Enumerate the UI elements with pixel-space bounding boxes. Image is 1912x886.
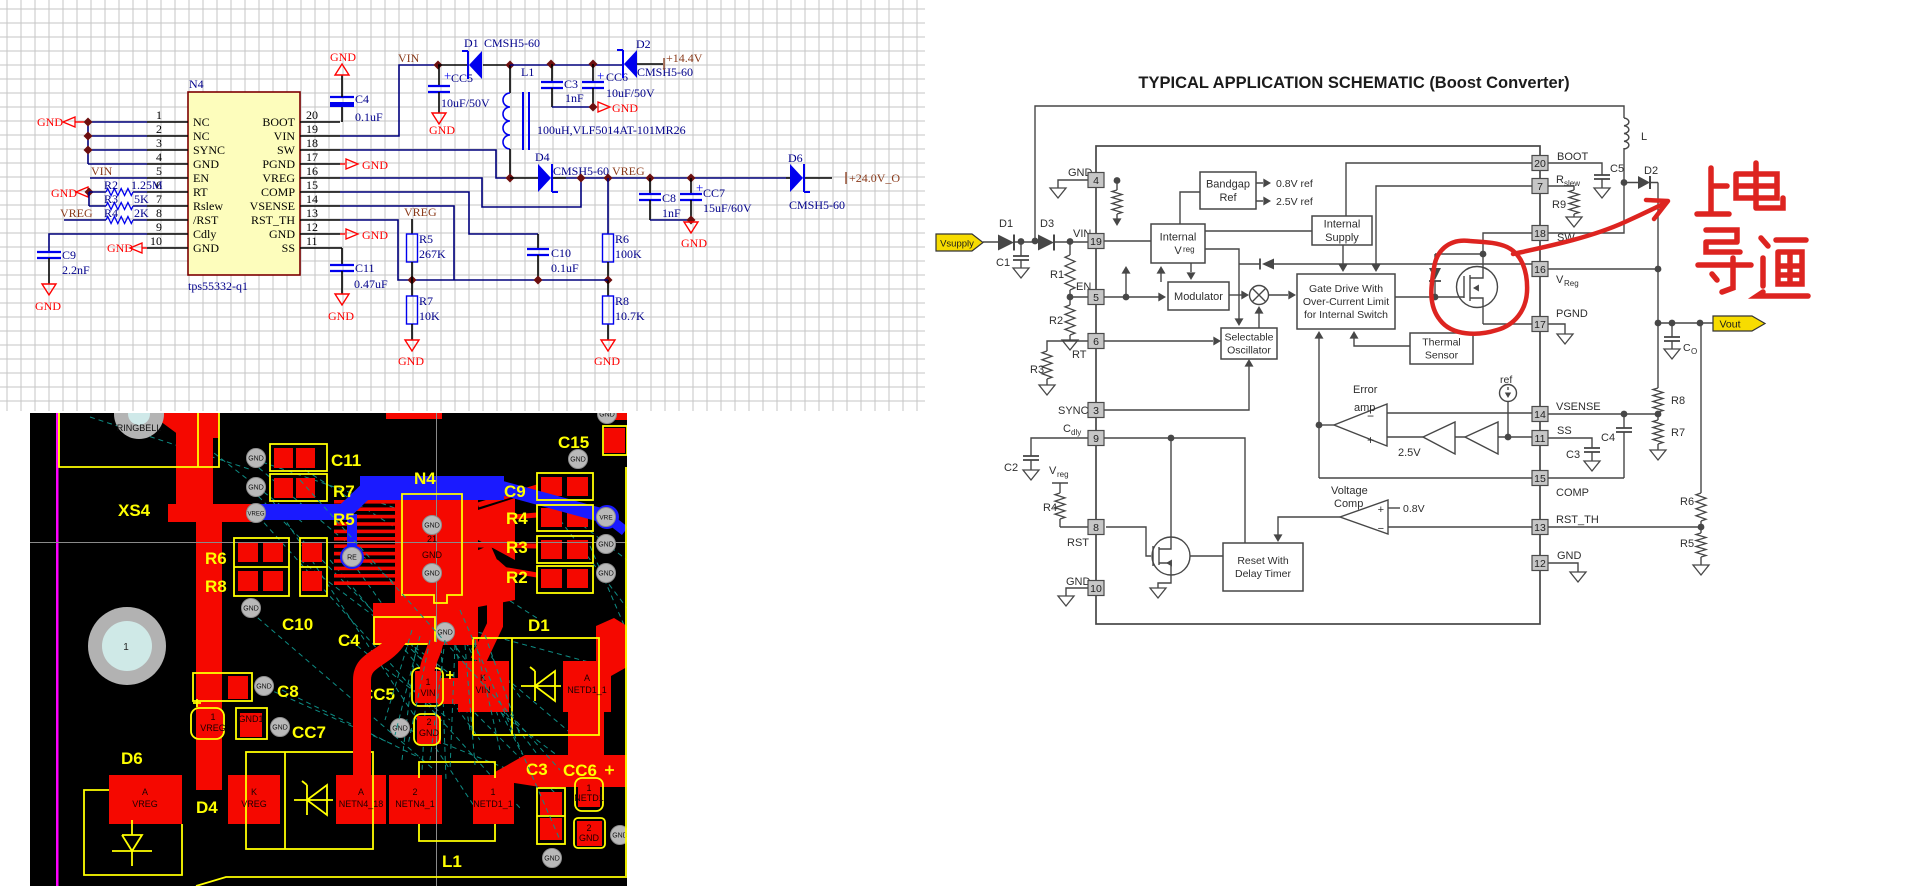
Reset With Delay Timer box	[1223, 543, 1303, 591]
pin 10 GND wire	[1066, 588, 1091, 596]
svg-text:19: 19	[1090, 236, 1102, 248]
pads CC5	[415, 671, 441, 744]
svg-text:R: R	[1556, 174, 1564, 186]
svg-text:C2: C2	[1004, 462, 1018, 474]
right pin numbers 20-11	[306, 108, 318, 248]
svg-text:18: 18	[1534, 228, 1546, 240]
wire VREG rail	[566, 177, 786, 179]
multiplier circle	[1250, 286, 1269, 305]
svg-text:1nF: 1nF	[662, 206, 681, 220]
svg-text:R1: R1	[1050, 269, 1064, 281]
svg-text:R4: R4	[1043, 502, 1057, 514]
ratsnest airwires	[90, 417, 627, 818]
Bandgap Ref box	[1200, 172, 1256, 209]
svg-text:GND: GND	[193, 241, 219, 255]
svg-text:COMP: COMP	[261, 185, 295, 199]
svg-text:2: 2	[426, 717, 431, 727]
svg-text:GND: GND	[398, 354, 424, 368]
svg-text:R7: R7	[1671, 427, 1685, 439]
junction CC6 top	[589, 60, 598, 69]
svg-text:GND: GND	[392, 726, 408, 733]
svg-text:A: A	[358, 787, 364, 797]
diode D3	[1038, 218, 1054, 251]
Vout tag	[1713, 316, 1765, 331]
svg-text:VIN: VIN	[274, 129, 296, 143]
svg-text:+24.0V_O: +24.0V_O	[849, 171, 900, 185]
svg-text:/RST: /RST	[193, 213, 219, 227]
svg-text:R3: R3	[104, 192, 118, 206]
junction R6/R8	[604, 276, 613, 285]
wire RST_TH pin 13 riser	[340, 220, 412, 280]
COMP internal wire	[1319, 477, 1533, 479]
svg-text:267K: 267K	[419, 247, 446, 261]
ground symbol above C4	[330, 50, 356, 75]
svg-text:12: 12	[1534, 558, 1546, 570]
title	[1138, 74, 1569, 92]
svg-text:R6: R6	[1680, 496, 1694, 508]
svg-text:R7: R7	[333, 482, 355, 501]
svg-text:dly: dly	[1071, 428, 1081, 437]
svg-text:VREG: VREG	[262, 171, 295, 185]
net label +14.4V	[664, 51, 703, 70]
ground symbol under R7	[398, 340, 424, 368]
svg-text:14: 14	[1534, 409, 1546, 421]
error amp output to gate drive	[1318, 335, 1320, 478]
svg-text:RST_TH: RST_TH	[1556, 514, 1599, 526]
svg-text:C: C	[1683, 342, 1691, 354]
svg-text:2.5V: 2.5V	[1398, 447, 1421, 459]
svg-text:R5: R5	[1680, 538, 1694, 550]
svg-text:GND: GND	[362, 158, 388, 172]
svg-text:NETD1_1: NETD1_1	[473, 799, 513, 809]
gate drive node wire	[1435, 253, 1483, 255]
internal pulldown resistor pin4	[1116, 180, 1118, 190]
svg-text:GND: GND	[579, 833, 600, 843]
svg-text:1: 1	[490, 787, 495, 797]
svg-text:VREG: VREG	[200, 723, 226, 733]
svg-text:19: 19	[306, 122, 318, 136]
svg-text:15uF/60V: 15uF/60V	[703, 201, 752, 215]
capacitor CC5 10uF/50V	[428, 65, 490, 113]
junction dot R2 left	[85, 188, 94, 197]
svg-text:BOOT: BOOT	[262, 115, 295, 129]
svg-text:+: +	[597, 68, 604, 83]
svg-text:17: 17	[1534, 319, 1546, 331]
svg-text:1: 1	[123, 642, 129, 653]
inductor L	[1624, 118, 1629, 149]
svg-text:Gate Drive With: Gate Drive With	[1309, 283, 1383, 295]
Vsupply tag	[936, 234, 983, 251]
svg-text:3: 3	[156, 136, 162, 150]
svg-text:RINGBELL: RINGBELL	[117, 423, 162, 433]
svg-text:GND: GND	[35, 299, 61, 313]
svg-text:GND: GND	[328, 309, 354, 323]
silk top-left connector XS4	[59, 413, 219, 467]
svg-text:GND1: GND1	[238, 714, 263, 724]
inductor L1 100uH	[503, 65, 686, 178]
resistor R8 10.7K	[607, 280, 609, 340]
gate wire from gate drive	[1395, 296, 1464, 298]
N4 pin traces right	[478, 487, 537, 575]
svg-text:Oscillator: Oscillator	[1227, 345, 1271, 357]
svg-text:R2: R2	[506, 568, 528, 587]
silkscreen designator texts	[118, 433, 597, 871]
svg-text:1: 1	[425, 677, 430, 687]
svg-text:C4: C4	[1601, 432, 1615, 444]
wire VREG to R6	[607, 178, 609, 234]
value label tps55332-q1	[188, 279, 248, 293]
svg-text:GND: GND	[424, 523, 440, 530]
svg-text:C4: C4	[338, 631, 360, 650]
wire SW pin 18 to D4 anode	[340, 150, 510, 178]
svg-text:2.2nF: 2.2nF	[62, 263, 90, 277]
pin 4 GND wire	[1058, 180, 1089, 188]
svg-text:+: +	[1367, 433, 1374, 447]
svg-text:RST: RST	[1067, 537, 1089, 549]
svg-text:Cdly: Cdly	[193, 227, 216, 241]
pin 15 COMP wire external	[1548, 477, 1624, 479]
svg-text:Delay Timer: Delay Timer	[1235, 568, 1292, 580]
svg-text:Bandgap: Bandgap	[1206, 179, 1250, 191]
wire D2 cathode to Vout	[1657, 183, 1659, 324]
silk C9 R4 R3 R2 boxes	[537, 473, 593, 593]
pin 20 BOOT + C5	[1548, 163, 1602, 188]
svg-text:CMSH5-60: CMSH5-60	[789, 198, 845, 212]
ground symbol under C11	[328, 294, 354, 323]
svg-text:GND: GND	[37, 115, 63, 129]
svg-text:0.8V: 0.8V	[1403, 503, 1425, 515]
svg-text:2: 2	[586, 823, 591, 833]
silk board outline bottom	[196, 467, 627, 886]
PCB origin crosshair	[30, 413, 627, 886]
svg-text:10.7K: 10.7K	[615, 309, 645, 323]
svg-text:VREG: VREG	[132, 799, 158, 809]
Internal Supply box	[1312, 216, 1372, 245]
svg-text:GND: GND	[362, 228, 388, 242]
svg-text:GND: GND	[422, 550, 443, 560]
svg-text:Selectable: Selectable	[1224, 332, 1273, 344]
svg-text:EN: EN	[193, 171, 209, 185]
pin 12 GND ground	[1548, 563, 1578, 572]
capacitor Co	[1671, 323, 1673, 349]
svg-text:RT: RT	[1072, 349, 1087, 361]
svg-text:C15: C15	[558, 433, 589, 452]
ground power port pin 17 PGND	[340, 158, 388, 172]
svg-text:R4: R4	[506, 509, 528, 528]
svg-text:GND: GND	[248, 456, 264, 463]
svg-text:C10: C10	[551, 246, 571, 260]
resistor R5 267K	[407, 219, 447, 280]
svg-text:C10: C10	[282, 615, 313, 634]
svg-text:+14.4V: +14.4V	[666, 51, 703, 65]
svg-text:NC: NC	[193, 115, 210, 129]
svg-text:13: 13	[306, 206, 318, 220]
svg-text:NETN4_18: NETN4_18	[339, 799, 384, 809]
resistor R2 1.25M	[104, 178, 163, 196]
ground power port GND pin 10	[107, 241, 147, 255]
oscillator to multiplier	[1258, 312, 1260, 328]
SW internal wire	[1483, 233, 1533, 254]
silk D6 outline and diode symbol	[84, 790, 182, 875]
svg-text:0.1uF: 0.1uF	[355, 110, 383, 124]
svg-text:XS4: XS4	[118, 501, 151, 520]
label VIN	[1073, 228, 1091, 240]
via VREG	[247, 504, 266, 523]
multiplier to gate drive	[1269, 294, 1288, 296]
svg-text:GND: GND	[51, 186, 77, 200]
junction VIN/L1	[506, 61, 515, 70]
svg-text:reg: reg	[1183, 245, 1195, 254]
mounting hole 1	[88, 607, 166, 685]
svg-text:VIN: VIN	[91, 164, 113, 178]
IC N4 right pin stubs 20-11	[300, 122, 340, 248]
svg-text:R6: R6	[205, 549, 227, 568]
capacitor CC6 10uF/50V	[582, 64, 655, 107]
svg-text:R9: R9	[1552, 199, 1566, 211]
svg-text:13: 13	[1534, 522, 1546, 534]
designator N4	[189, 77, 204, 91]
svg-text:CC5: CC5	[451, 71, 473, 85]
wire transistor to reset box	[1190, 555, 1223, 557]
svg-text:GND: GND	[424, 571, 440, 578]
svg-text:D4: D4	[535, 150, 550, 164]
via VRE on blue trace	[597, 508, 616, 527]
wire Internal Supply to BOOT	[1346, 163, 1533, 216]
svg-text:R3: R3	[506, 538, 528, 557]
junction dots bus	[84, 118, 93, 155]
svg-text:0.8V ref: 0.8V ref	[1276, 178, 1313, 190]
wire Vreg down to modulator	[1190, 263, 1192, 272]
net label VIN (pin 5)	[91, 164, 113, 178]
svg-text:C4: C4	[355, 92, 369, 106]
svg-text:R5: R5	[333, 510, 355, 529]
svg-text:VSENSE: VSENSE	[1556, 401, 1601, 413]
svg-text:Comp: Comp	[1334, 498, 1363, 510]
capacitor C9 2.2nF	[37, 248, 90, 284]
svg-text:NC: NC	[193, 129, 210, 143]
svg-text:amp: amp	[1354, 402, 1375, 414]
IC N4 left pin stubs 1-10	[147, 122, 188, 248]
wire VIN to C3/CC6/D2	[510, 64, 622, 66]
svg-text:N4: N4	[189, 77, 204, 91]
svg-text:Internal: Internal	[1324, 219, 1361, 231]
net label +24.0V_O	[846, 171, 900, 185]
diode D4 CMSH5-60	[510, 177, 566, 179]
svg-text:GND: GND	[269, 227, 295, 241]
pin boxes left side	[1088, 173, 1104, 596]
pads R6 R8	[238, 542, 322, 591]
svg-text:PGND: PGND	[262, 157, 295, 171]
svg-text:R8: R8	[615, 294, 629, 308]
junction VIN/CC5	[434, 61, 443, 70]
svg-text:Voltage: Voltage	[1331, 485, 1368, 497]
copper pour N4	[373, 498, 515, 645]
Internal Supply arrows into gate drive	[1343, 245, 1376, 265]
IC N4 left pin names	[193, 115, 225, 255]
svg-text:100K: 100K	[615, 247, 642, 261]
svg-text:SS: SS	[282, 241, 295, 255]
svg-text:tps55332-q1: tps55332-q1	[188, 279, 248, 293]
svg-text:SS: SS	[1557, 425, 1572, 437]
svg-text:C11: C11	[355, 261, 375, 275]
svg-text:O: O	[1691, 347, 1697, 356]
wire drain up to Cdly line	[1170, 438, 1172, 537]
junction L/D2/SW	[1621, 179, 1628, 186]
resistor R6 100K	[603, 232, 643, 262]
svg-text:N4: N4	[414, 469, 436, 488]
Vreg bias + R4	[1049, 465, 1069, 479]
pin 13 RST_TH wire external	[1548, 526, 1701, 528]
Rslew internal wire	[1376, 186, 1533, 245]
svg-text:SW: SW	[277, 143, 296, 157]
comparator output to reset timer	[1278, 517, 1340, 535]
IC N4 right pin names	[250, 115, 296, 255]
capacitor CC7 15uF/60V	[680, 178, 752, 220]
svg-text:+: +	[1378, 504, 1384, 516]
copper pour top left	[160, 413, 627, 438]
wire VIN pin 19 riser	[340, 65, 438, 136]
svg-text:2: 2	[412, 787, 417, 797]
svg-text:C8: C8	[662, 191, 676, 205]
svg-text:V: V	[1556, 274, 1564, 286]
svg-text:RE: RE	[347, 555, 357, 562]
pad net name texts	[132, 534, 607, 843]
svg-text:COMP: COMP	[1556, 487, 1589, 499]
svg-text:GND: GND	[419, 728, 440, 738]
schematic grid background	[0, 0, 925, 411]
resistor R7	[1650, 414, 1685, 460]
svg-text:L1: L1	[521, 65, 534, 79]
pin 14 VSENSE wire	[1548, 413, 1658, 415]
svg-text:K: K	[251, 787, 257, 797]
svg-text:20: 20	[1534, 158, 1546, 170]
svg-text:GND: GND	[681, 236, 707, 250]
buffer triangle 2	[1465, 422, 1498, 454]
svg-text:10uF/50V: 10uF/50V	[441, 96, 490, 110]
wire VREG to R4	[64, 219, 147, 221]
svg-text:NETD1: NETD1	[574, 793, 604, 803]
svg-text:VRE: VRE	[599, 515, 613, 522]
svg-text:GND: GND	[598, 571, 614, 578]
blue top-layer trace R5 net	[258, 488, 608, 556]
svg-text:Modulator: Modulator	[1174, 291, 1223, 303]
pads C9 R4 R3 R2	[541, 477, 588, 588]
svg-text:GND: GND	[612, 101, 638, 115]
wire VREG pin 16 loop under D4	[340, 178, 581, 207]
svg-text:9: 9	[1093, 433, 1099, 445]
svg-text:GND: GND	[599, 412, 615, 419]
svg-text:1: 1	[586, 783, 591, 793]
svg-text:RT: RT	[193, 185, 208, 199]
svg-text:CMSH5-60: CMSH5-60	[637, 65, 693, 79]
silk CC5 boxes	[412, 668, 454, 745]
buffer chain to SS	[1387, 436, 1533, 438]
svg-text:17: 17	[306, 150, 318, 164]
svg-text:6: 6	[1093, 336, 1099, 348]
junction VREG rail dots	[577, 174, 696, 183]
svg-text:D6: D6	[788, 151, 803, 165]
copper trace SW to D1	[478, 548, 495, 661]
pin 18 SW wire	[1548, 182, 1624, 233]
svg-text:SYNC: SYNC	[193, 143, 225, 157]
svg-text:D2: D2	[1644, 165, 1658, 177]
Internal Vreg box	[1151, 224, 1205, 263]
bandgap ref outputs	[1256, 183, 1263, 201]
svg-text:GND: GND	[570, 457, 586, 464]
svg-text:4: 4	[1093, 175, 1099, 187]
svg-text:16: 16	[306, 164, 318, 178]
svg-text:GND: GND	[1557, 550, 1582, 562]
svg-text:CC7: CC7	[292, 723, 326, 742]
body diode branch	[1434, 254, 1436, 297]
svg-text:PGND: PGND	[1556, 308, 1588, 320]
svg-text:−: −	[1378, 523, 1384, 535]
bandgap input wire	[1180, 192, 1200, 224]
silk R6 R8 boxes	[234, 538, 327, 596]
value CMSH5-60 and net label VREG at D4	[553, 164, 645, 178]
svg-text:Supply: Supply	[1325, 232, 1359, 244]
resistor R5 divider	[1680, 527, 1709, 575]
svg-text:Error: Error	[1353, 384, 1378, 396]
svg-text:R8: R8	[1671, 395, 1685, 407]
svg-text:CC6: CC6	[606, 70, 628, 84]
buffer triangle 1	[1423, 422, 1455, 454]
svg-text:8: 8	[1093, 522, 1099, 534]
silk N4 outline	[402, 494, 462, 603]
svg-text:D2: D2	[636, 37, 651, 51]
svg-text:0.47uF: 0.47uF	[354, 277, 388, 291]
svg-text:VIN: VIN	[398, 51, 420, 65]
svg-text:2: 2	[156, 122, 162, 136]
svg-text:5: 5	[1093, 292, 1099, 304]
svg-text:C5: C5	[1610, 163, 1624, 175]
VReg internal wire with diode	[1274, 263, 1533, 265]
svg-text:20: 20	[306, 108, 318, 122]
svg-text:9: 9	[156, 220, 162, 234]
svg-text:VREG: VREG	[241, 799, 267, 809]
svg-text:V: V	[1049, 465, 1057, 477]
svg-text:L: L	[1641, 131, 1647, 143]
svg-text:CMSH5-60: CMSH5-60	[484, 36, 540, 50]
svg-text:5: 5	[156, 164, 162, 178]
svg-text:R4: R4	[104, 206, 118, 220]
svg-text:10uF/50V: 10uF/50V	[606, 86, 655, 100]
svg-text:GND: GND	[1066, 576, 1091, 588]
voltage comparator	[1340, 500, 1388, 534]
svg-text:reg: reg	[1057, 470, 1069, 479]
svg-text:D1: D1	[464, 36, 479, 50]
error amp triangle	[1334, 404, 1387, 446]
wire VIN to EN pin	[90, 177, 147, 179]
svg-text:TYPICAL APPLICATION SCHEMATIC: TYPICAL APPLICATION SCHEMATIC (Boost Con…	[1138, 74, 1569, 92]
ground symbol under R8	[594, 340, 620, 368]
svg-text:21: 21	[427, 534, 437, 544]
svg-text:R5: R5	[419, 232, 433, 246]
svg-text:15: 15	[1534, 473, 1546, 485]
svg-text:VREG: VREG	[612, 164, 645, 178]
PGND internal wire	[1483, 323, 1533, 325]
junction CC6 bottom	[589, 103, 598, 112]
svg-text:NETN4_1: NETN4_1	[395, 799, 435, 809]
svg-text:GND: GND	[594, 354, 620, 368]
svg-text:GND: GND	[256, 684, 272, 691]
red annotation arrow	[1513, 200, 1668, 254]
svg-text:8: 8	[156, 206, 162, 220]
reset pulldown MOSFET	[1152, 537, 1190, 588]
svg-text:CC7: CC7	[703, 186, 725, 200]
vias GND	[242, 405, 630, 868]
diode D6 CMSH5-60 output	[786, 177, 832, 179]
